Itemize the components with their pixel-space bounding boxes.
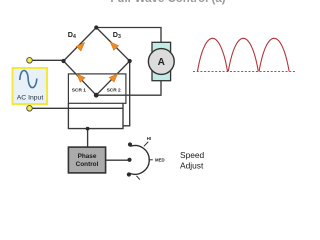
diode D3 arrow [108,40,119,51]
terminal bottom [27,106,33,112]
waveform hump 3 [259,38,289,71]
node left vertex [61,59,65,63]
waveform baseline (dashed) [193,71,295,73]
pot terminal LOW [127,172,131,176]
svg-text:D4: D4 [68,30,76,40]
node right vertex [128,59,132,63]
svg-text:SCR 1: SCR 1 [72,88,86,94]
wire AC top to left vertex [30,59,64,61]
svg-text:Adjust: Adjust [180,160,204,170]
node bottom vertex [94,93,99,98]
waveform hump 1 [198,38,228,71]
AC input box [13,68,48,104]
ammeter M1 [148,42,174,80]
svg-text:D3: D3 [113,30,121,40]
wire bridge arm B-R (SCR2) [96,61,130,95]
svg-text:Control: Control [76,161,99,168]
terminal top [27,58,33,64]
tick MED [149,159,153,161]
svg-text:SCR 2: SCR 2 [107,88,121,94]
phase control box [68,147,105,173]
svg-text:A: A [158,57,165,68]
wire bridge arm T-R (D3) [96,28,129,62]
SCR1 arrow [74,71,85,82]
svg-text:Speed: Speed [180,150,205,160]
SCR box [68,74,126,103]
tick HI [144,142,148,147]
wire U loop under SCR box [68,103,123,128]
wire top vertex to ammeter top [96,28,161,43]
svg-text:Phase: Phase [78,153,97,160]
SCR2 arrow [109,71,120,82]
diode D4 arrow [76,40,87,51]
pot terminal wiper [127,158,131,162]
AC sine symbol [20,70,37,87]
wire AC bottom to right column [30,107,124,109]
wire bottom vertex to ammeter bottom [96,81,161,96]
svg-text:Full-Wave Control (a): Full-Wave Control (a) [110,0,225,5]
wire bridge arm L-T (D4) [64,28,97,62]
svg-text:MED: MED [155,158,165,163]
pot terminal HI [128,142,132,146]
speed pot arc [130,146,149,175]
node top vertex [94,25,98,29]
svg-text:AC Input: AC Input [17,94,44,101]
wire right vertex down with hook to U loop [123,61,130,126]
waveform hump 2 [228,38,258,71]
tick LOW [137,176,140,180]
wire phase control to speed pot [106,159,128,161]
wire junction down to phase control [87,129,89,148]
svg-text:HI: HI [147,136,151,141]
wire bridge arm L-B (SCR1) [64,61,97,95]
node gate junction [86,127,90,131]
